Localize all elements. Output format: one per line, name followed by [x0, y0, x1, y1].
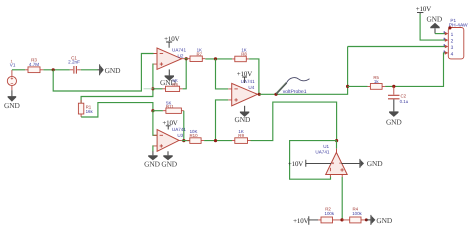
op-amp U1 (rotated, pointing up) [315, 144, 347, 177]
svg-text:100k: 100k [352, 211, 362, 216]
capacitor C1 [68, 55, 81, 73]
wire node down to U3 minus [153, 111, 157, 136]
+10V power at U3 [162, 120, 177, 129]
wire V1 to R3 [12, 69, 25, 71]
node after R3 [52, 68, 55, 71]
capacitor C2 [388, 86, 409, 103]
node on plus line at R6 [151, 87, 154, 90]
wire C1 to ground arrow [81, 69, 98, 71]
svg-text:R10: R10 [189, 133, 198, 138]
svg-text:4.7M: 4.7M [29, 62, 39, 67]
+10V power at U2 [164, 36, 179, 48]
divider node [340, 218, 343, 221]
svg-text:UA741: UA741 [315, 150, 329, 155]
resistor R8 [232, 47, 249, 61]
ground arrow right of R4 [366, 215, 393, 225]
U4 output node [258, 93, 261, 96]
svg-text:R8: R8 [241, 51, 247, 56]
svg-text:UA741: UA741 [172, 127, 186, 132]
svg-text:UA741: UA741 [172, 48, 186, 53]
wire to R10 [182, 140, 190, 142]
GND arrow right of U1 [341, 159, 383, 168]
svg-text:2.2nF: 2.2nF [68, 60, 80, 65]
probe node [274, 93, 277, 96]
svg-text:GND: GND [367, 159, 383, 168]
svg-text:3: 3 [451, 45, 454, 51]
voltage probe voltProbe1 [276, 78, 309, 96]
wire node to R6 [153, 88, 163, 90]
resistor R11 [163, 100, 184, 113]
op-amp U2 [154, 48, 187, 70]
U2 plus input wire down to R1 line [81, 64, 153, 103]
svg-text:4: 4 [451, 51, 454, 57]
wire R10 to R9 [204, 140, 232, 142]
resistor R3 [25, 58, 43, 73]
svg-text:R6: R6 [172, 82, 178, 87]
U4 plus input wire down to R10/R9 line [216, 100, 229, 141]
svg-text:U1: U1 [323, 144, 329, 149]
wire R7 to R8 [205, 58, 232, 60]
svg-text:2: 2 [451, 38, 454, 44]
GND up arrow top right [426, 15, 442, 34]
svg-text:voltProbe1: voltProbe1 [283, 89, 307, 95]
svg-text:GND: GND [235, 115, 251, 124]
svg-text:GND: GND [4, 101, 20, 110]
ground below V1 [4, 90, 20, 110]
svg-text:U2: U2 [178, 54, 184, 59]
svg-text:GND: GND [144, 160, 160, 169]
wire R3 to C1 [43, 69, 69, 71]
svg-text:U4: U4 [248, 85, 254, 90]
resistor R4 [342, 206, 366, 223]
wire node down to U4 minus [216, 59, 229, 89]
node R10/R9 [214, 139, 217, 142]
op-amp U4 [228, 79, 260, 106]
GND arrow below U2 [160, 69, 176, 87]
U2 output node [185, 57, 188, 60]
wire U1 node to plus input loop [290, 141, 337, 180]
+10V power at U4 [237, 71, 252, 83]
wire R8 to U4 output (feedback) [249, 59, 259, 94]
svg-text:1k: 1k [374, 79, 379, 84]
R11 feedback wire down to U3 output [183, 111, 185, 141]
svg-text:+10V: +10V [293, 218, 308, 225]
svg-text:UA741: UA741 [241, 79, 255, 84]
C2 node [392, 85, 395, 88]
node R7/R8 [214, 57, 217, 60]
R1 column: resistor R1 [78, 100, 93, 117]
wire R5 to C2 node and up to P1 pin4 [385, 53, 446, 87]
svg-text:V1: V1 [10, 62, 16, 67]
svg-text:R11: R11 [166, 104, 174, 109]
connector P1 PH-4AW [444, 18, 468, 59]
op-amp U3 [154, 127, 187, 151]
wire node to R11 [153, 110, 163, 112]
U3 input node [151, 109, 154, 112]
wire node to R5 [348, 85, 368, 87]
svg-text:GND: GND [426, 15, 442, 24]
+10V power at U1 left [288, 160, 331, 168]
short light stub left of node [144, 88, 153, 90]
node after R4 [365, 218, 368, 221]
U3 output node [182, 139, 185, 142]
svg-text:1: 1 [451, 32, 454, 38]
wire U2 output to R7 [185, 58, 188, 60]
output wire to the right [259, 47, 347, 95]
GND arrow below C2 [386, 99, 402, 126]
voltage source V1 [7, 60, 16, 91]
bottom divider: +10V power [293, 216, 318, 225]
svg-text:PH-4AW: PH-4AW [449, 23, 469, 28]
U1 output stub [336, 141, 338, 149]
wire up-right to P1 pin3 [348, 46, 446, 48]
GND arrow below U3 plus [144, 151, 160, 168]
resistor R7 [187, 47, 205, 61]
resistor R6 [163, 78, 183, 91]
svg-text:U3: U3 [177, 133, 183, 138]
svg-text:GND: GND [161, 160, 177, 169]
GND arrow below U4 [235, 106, 251, 124]
svg-text:R9: R9 [238, 133, 244, 138]
U1 minus wire down to divider [341, 177, 343, 220]
U3 plus input to ground [152, 146, 155, 152]
wire R1 bottom loop to U3 input node [81, 103, 153, 117]
U2 feedback wire output to R6 [183, 59, 187, 89]
wire GND to P1 pin1 [435, 33, 445, 35]
svg-text:16k: 16k [86, 109, 94, 114]
resistor R10 [187, 129, 204, 144]
resistor R2 [318, 206, 341, 223]
svg-text:GND: GND [105, 66, 121, 75]
wire node to U2 minus input [53, 54, 153, 92]
svg-text:100k: 100k [325, 211, 335, 216]
resistor R9 [232, 129, 251, 144]
wire +10V to P1 pin2 [420, 14, 445, 40]
svg-text:+10V: +10V [416, 6, 431, 13]
+10V power top right [416, 6, 431, 14]
svg-text:0.1u: 0.1u [400, 99, 409, 104]
wire R9 up over to U1 node [251, 102, 337, 141]
svg-text:GND: GND [386, 117, 402, 126]
GND arrow below U3 power [161, 151, 177, 168]
U1 node [335, 139, 338, 142]
svg-text:R7: R7 [196, 51, 202, 56]
resistor R5 [368, 75, 386, 90]
svg-text:GND: GND [376, 216, 392, 225]
ground arrow right of C1 [98, 64, 122, 75]
svg-text:+10V: +10V [288, 161, 303, 168]
node above R5 [346, 85, 349, 88]
